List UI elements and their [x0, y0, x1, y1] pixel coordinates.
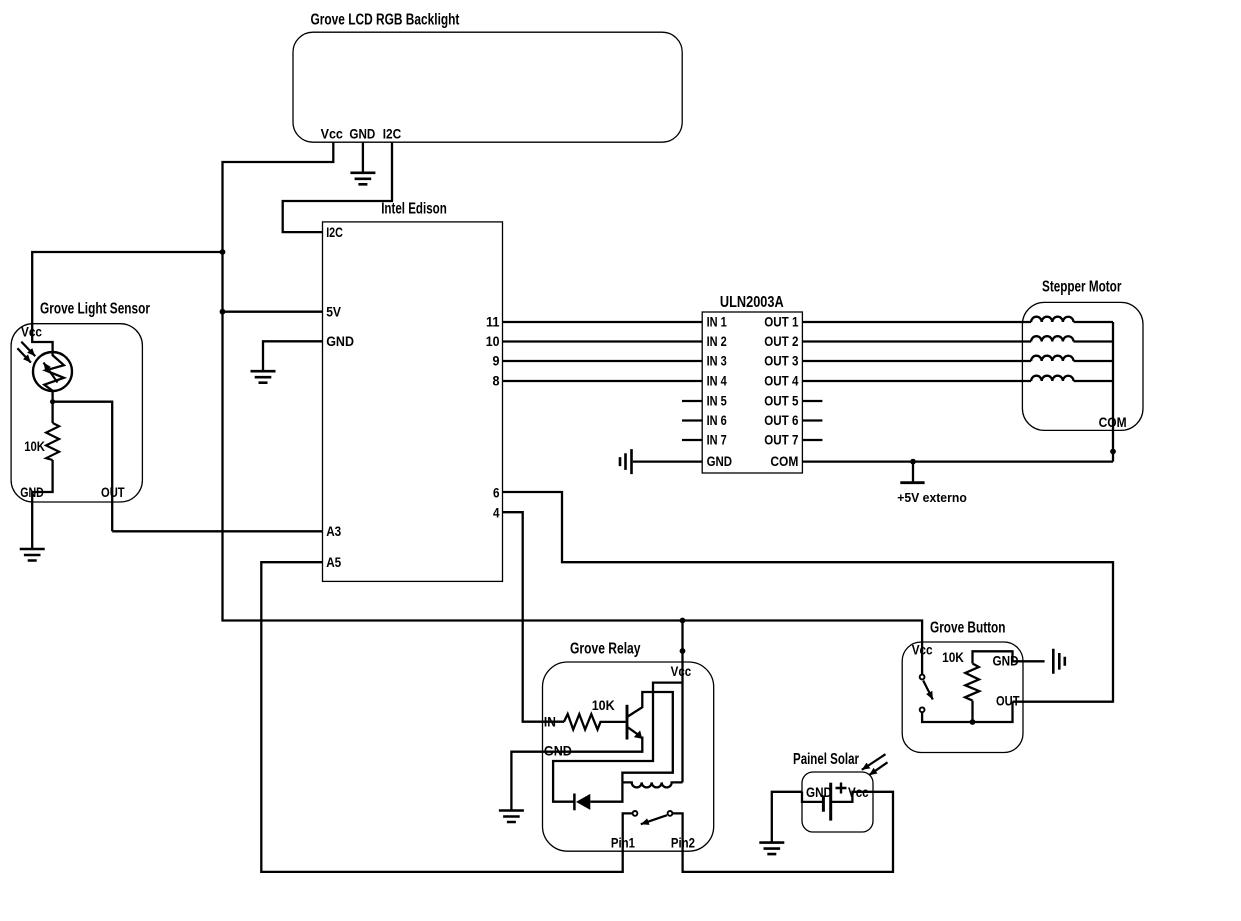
svg-text:OUT: OUT: [101, 484, 125, 500]
svg-text:10K: 10K: [592, 697, 615, 713]
svg-text:Stepper Motor: Stepper Motor: [1042, 279, 1121, 296]
svg-text:OUT 6: OUT 6: [764, 412, 798, 428]
svg-text:10K: 10K: [24, 438, 45, 454]
svg-text:10K: 10K: [942, 649, 964, 665]
svg-text:ULN2003A: ULN2003A: [720, 294, 784, 311]
svg-text:11: 11: [486, 314, 500, 330]
svg-text:5V: 5V: [326, 303, 341, 319]
svg-text:OUT 1: OUT 1: [764, 314, 798, 330]
svg-text:IN 4: IN 4: [707, 373, 727, 389]
svg-text:6: 6: [493, 484, 500, 500]
svg-text:OUT 4: OUT 4: [764, 373, 798, 389]
svg-text:Grove Button: Grove Button: [930, 620, 1006, 637]
svg-text:COM: COM: [1099, 414, 1127, 430]
svg-text:IN 1: IN 1: [707, 314, 727, 330]
svg-text:4: 4: [493, 505, 500, 521]
svg-text:IN 7: IN 7: [707, 432, 727, 448]
svg-text:I2C: I2C: [326, 224, 343, 240]
svg-text:+5V externo: +5V externo: [897, 490, 967, 505]
svg-text:OUT: OUT: [996, 693, 1020, 709]
svg-text:GND: GND: [544, 742, 572, 758]
svg-text:Grove LCD RGB Backlight: Grove LCD RGB Backlight: [311, 11, 460, 28]
svg-text:GND: GND: [707, 453, 733, 469]
svg-text:IN: IN: [544, 713, 556, 729]
svg-text:8: 8: [493, 373, 500, 389]
svg-text:9: 9: [493, 353, 500, 369]
svg-text:Painel Solar: Painel Solar: [793, 751, 859, 768]
svg-text:IN 3: IN 3: [707, 353, 727, 369]
svg-text:GND: GND: [993, 653, 1019, 669]
svg-text:Vcc: Vcc: [21, 323, 42, 339]
svg-text:OUT 5: OUT 5: [764, 393, 798, 409]
svg-text:10: 10: [486, 333, 500, 349]
svg-text:A5: A5: [326, 554, 341, 570]
svg-text:Pin1: Pin1: [611, 835, 635, 851]
svg-text:A3: A3: [326, 523, 341, 539]
svg-text:OUT 2: OUT 2: [764, 333, 798, 349]
svg-text:Grove Relay: Grove Relay: [570, 641, 641, 658]
svg-text:Vcc: Vcc: [671, 663, 692, 679]
svg-text:Grove Light Sensor: Grove Light Sensor: [40, 301, 150, 318]
svg-text:I2C: I2C: [383, 126, 402, 142]
svg-text:Pin2: Pin2: [671, 835, 695, 851]
svg-text:GND: GND: [20, 484, 44, 500]
svg-text:Vcc: Vcc: [321, 126, 343, 142]
svg-text:OUT 3: OUT 3: [764, 353, 798, 369]
svg-text:COM: COM: [770, 453, 798, 469]
svg-text:Vcc: Vcc: [848, 784, 869, 800]
svg-text:IN 6: IN 6: [707, 412, 727, 428]
svg-text:Vcc: Vcc: [912, 641, 933, 657]
svg-text:Intel Edison: Intel Edison: [381, 201, 447, 218]
svg-text:GND: GND: [806, 784, 832, 800]
svg-text:OUT 7: OUT 7: [764, 432, 798, 448]
svg-text:IN 5: IN 5: [707, 393, 727, 409]
svg-text:GND: GND: [349, 126, 375, 142]
svg-text:GND: GND: [326, 333, 354, 349]
svg-text:IN 2: IN 2: [707, 333, 727, 349]
